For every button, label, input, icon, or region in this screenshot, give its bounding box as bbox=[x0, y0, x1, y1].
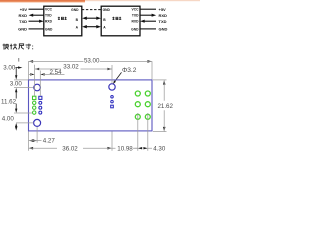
wire GND to module U1 bbox=[29, 28, 44, 30]
dim line 21.62 vertical bbox=[163, 80, 165, 131]
section heading 模块尺寸: (pseudo CJK glyphs) bbox=[3, 44, 33, 50]
ext bottom edge right bbox=[153, 131, 167, 133]
ext board-left down bbox=[28, 132, 30, 151]
dim line 10.98 bbox=[112, 147, 138, 149]
21.62 arrows bbox=[163, 80, 166, 85]
svg-text:RXD: RXD bbox=[159, 13, 168, 18]
svg-text:GND: GND bbox=[45, 27, 53, 31]
ext right pad col2 down bbox=[147, 113, 149, 151]
ext board-right up bbox=[151, 61, 153, 79]
ext pin row4 left bbox=[14, 112, 32, 114]
ext top edge left bbox=[14, 79, 28, 81]
svg-text:3.00: 3.00 bbox=[3, 65, 16, 72]
jumper J2 vias under middle hole bbox=[111, 96, 114, 99]
wire +5V right bbox=[140, 8, 156, 10]
ext pin col1 up bbox=[34, 65, 36, 96]
U1 label 本模块 (pseudo glyphs) bbox=[58, 17, 67, 20]
svg-text:21.62: 21.62 bbox=[157, 103, 173, 110]
dashed GND-GND net between modules bbox=[82, 9, 101, 11]
3.00 leader arrow bbox=[18, 66, 22, 68]
svg-text:GND: GND bbox=[131, 27, 139, 31]
11.62 lower arrow bbox=[15, 104, 17, 111]
dimension texts bbox=[1, 57, 174, 152]
wire RXD in with left arrow bbox=[143, 20, 156, 22]
PCB board outline bbox=[29, 80, 153, 131]
ext pin col2 up bbox=[39, 71, 41, 97]
mounting hole H3 top-middle bbox=[109, 84, 115, 90]
svg-text:RXD: RXD bbox=[132, 20, 140, 24]
svg-text:36.02: 36.02 bbox=[62, 145, 78, 152]
module U1 box bbox=[44, 6, 82, 36]
dim line 4.30 leader bbox=[133, 147, 152, 149]
ext mid hole down bbox=[111, 132, 113, 151]
mounting hole H2 bottom-left bbox=[34, 119, 41, 126]
gray extension lines bbox=[14, 58, 167, 151]
module U2 box bbox=[101, 6, 140, 36]
header J1 row3 pads bbox=[33, 106, 36, 109]
2.54 outside arrows bbox=[30, 73, 34, 75]
ext hole1 center left bbox=[14, 87, 33, 89]
svg-text:4.00: 4.00 bbox=[2, 116, 15, 123]
mounting hole H1 top-left bbox=[34, 84, 41, 91]
svg-text:VCC: VCC bbox=[132, 8, 140, 12]
U2 label 本模块 (pseudo glyphs) bbox=[112, 17, 121, 20]
wire +5V to module U1 bbox=[29, 8, 44, 10]
dim line 36.02 bbox=[29, 147, 113, 149]
svg-text:33.02: 33.02 bbox=[63, 63, 79, 70]
3.00 vertical arrows bbox=[15, 68, 17, 78]
header J1 pin1 pads (squares) bbox=[33, 96, 36, 99]
svg-text:+5V: +5V bbox=[159, 7, 167, 12]
4.00 arrows bbox=[15, 123, 17, 127]
svg-text:RXD: RXD bbox=[45, 20, 53, 24]
svg-text:GND: GND bbox=[103, 8, 111, 12]
4.27 arrows bbox=[29, 139, 34, 142]
36.02 arrows bbox=[29, 147, 34, 150]
header J1 row2 pads bbox=[33, 101, 36, 104]
svg-text:RXD: RXD bbox=[19, 13, 28, 18]
svg-text:GND: GND bbox=[159, 27, 168, 32]
bus wire B-B double arrow bbox=[82, 17, 101, 20]
bus wire A-A double arrow bbox=[82, 25, 101, 28]
svg-text:Φ3.2: Φ3.2 bbox=[122, 67, 137, 74]
svg-text:TXD: TXD bbox=[19, 19, 27, 24]
svg-text:3.00: 3.00 bbox=[10, 81, 23, 88]
wire RXD from U1 with left arrow bbox=[32, 14, 44, 16]
ext hole2 center left bbox=[16, 122, 34, 124]
33.02 arrows bbox=[35, 68, 40, 71]
wire TXD into U1 with right arrow bbox=[29, 20, 41, 22]
svg-text:11.62: 11.62 bbox=[1, 98, 17, 105]
page background bbox=[0, 0, 200, 162]
svg-text:TXD: TXD bbox=[159, 19, 167, 24]
ext mid hole up bbox=[111, 65, 113, 83]
tick upper-left bbox=[18, 58, 20, 62]
svg-text:GND: GND bbox=[71, 8, 79, 12]
svg-text:TXD: TXD bbox=[45, 14, 52, 18]
terminal block pads right (2x3 green) bbox=[135, 91, 140, 96]
ext board-left up bbox=[28, 61, 30, 79]
ext hole2 center down bbox=[36, 127, 38, 143]
svg-text:VCC: VCC bbox=[45, 8, 53, 12]
dim line 33.02 bbox=[35, 68, 112, 70]
svg-text:4.27: 4.27 bbox=[43, 137, 56, 144]
53.00 arrows bbox=[29, 60, 34, 63]
wire TXD out with right arrow to RXD label bbox=[140, 14, 153, 16]
ext top edge right bbox=[153, 79, 167, 81]
dimension arrowheads (black) bbox=[15, 60, 166, 149]
svg-text:GND: GND bbox=[18, 27, 27, 32]
4.30 outside arrows bbox=[138, 147, 142, 149]
svg-text:4.30: 4.30 bbox=[153, 146, 166, 153]
svg-text:+5V: +5V bbox=[20, 7, 28, 12]
svg-text:10.98: 10.98 bbox=[117, 145, 133, 152]
wire GND right bbox=[140, 28, 156, 30]
svg-text:TXD: TXD bbox=[132, 14, 139, 18]
dim line 4.27 bbox=[29, 140, 42, 142]
svg-text:53.00: 53.00 bbox=[84, 57, 100, 64]
dim line 53.00 bbox=[29, 60, 153, 62]
leader arrow for hole callout bbox=[113, 81, 116, 85]
ext right pad col1 down bbox=[137, 113, 139, 151]
svg-text:2.54: 2.54 bbox=[49, 69, 62, 76]
header J1 row4 pads bbox=[33, 111, 36, 114]
dim line 2.54 leader bbox=[29, 73, 65, 75]
